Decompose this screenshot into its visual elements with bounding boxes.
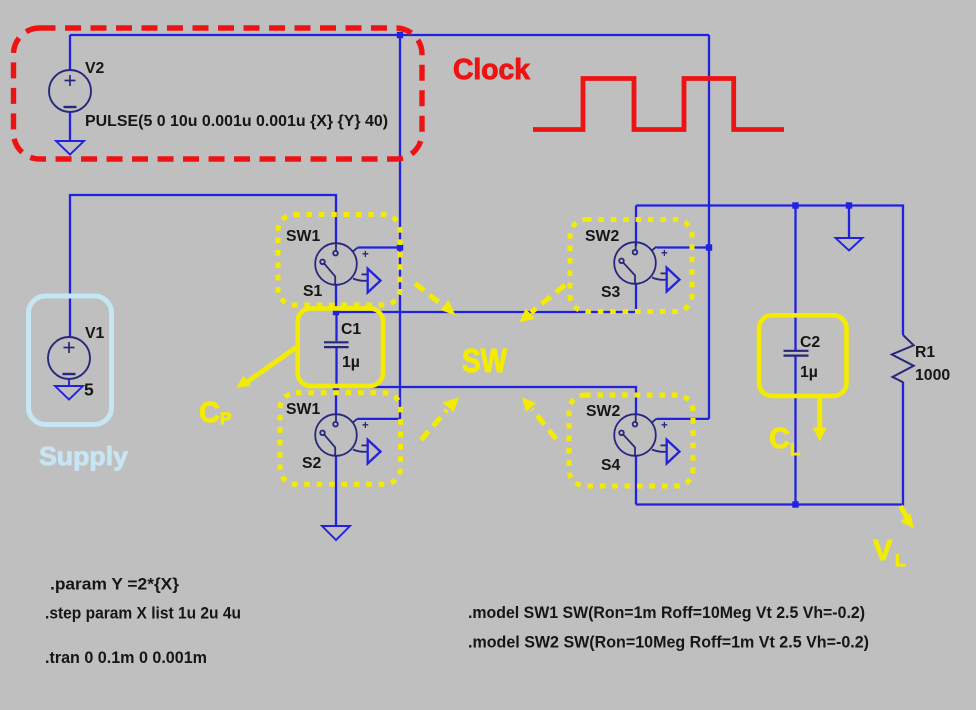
wire S3 control	[657, 246, 710, 248]
svg-text:Clock: Clock	[453, 54, 530, 86]
svg-text:5: 5	[84, 380, 94, 400]
svg-text:SW2: SW2	[586, 403, 620, 420]
wire output rail top	[636, 206, 903, 336]
red clock waveform	[533, 79, 784, 130]
svg-text:.param Y =2*{X}: .param Y =2*{X}	[50, 576, 180, 594]
capacitor C1	[324, 342, 349, 347]
wire ground stub right	[848, 206, 850, 239]
light blue highlight box around V1	[29, 296, 112, 425]
ground output rail	[836, 238, 863, 251]
switch S4	[614, 414, 679, 463]
switch S1	[315, 243, 380, 292]
ground below V1	[55, 379, 83, 400]
junction node C1 bottom	[333, 384, 339, 390]
svg-text:C: C	[199, 397, 220, 429]
yellow dotted box SW1 S1	[278, 215, 400, 306]
resistor R1	[892, 335, 914, 382]
wire C2 bottom lead	[794, 356, 796, 505]
wire S4 control	[657, 418, 710, 420]
svg-text:S3: S3	[601, 284, 621, 301]
svg-text:.step param X list 1u 2u 4u: .step param X list 1u 2u 4u	[45, 605, 241, 623]
capacitor C2	[784, 351, 809, 356]
wire C1 bottom node to S4 top	[336, 387, 636, 414]
svg-text:V: V	[873, 535, 893, 567]
wire supply net V1 to S1	[70, 195, 336, 337]
wire R1 bottom rail	[636, 382, 903, 505]
svg-text:1µ: 1µ	[800, 364, 818, 381]
svg-text:R1: R1	[915, 344, 935, 361]
svg-text:V1: V1	[85, 325, 105, 342]
wire net clock top	[70, 34, 709, 36]
wire S2 bottom to ground	[335, 456, 337, 526]
wire C1 bottom to S2 top	[335, 387, 337, 414]
yellow dashed arrow to S2	[421, 398, 459, 441]
wire C1 leads	[335, 312, 337, 387]
junction node S3 control tap	[706, 244, 712, 250]
yellow arrow Cp from C1	[237, 348, 297, 388]
svg-text:C2: C2	[800, 334, 820, 351]
voltage source V2	[49, 70, 91, 112]
svg-text:L: L	[790, 440, 800, 459]
yellow dotted box SW1 S2	[280, 393, 401, 485]
svg-text:SW1: SW1	[286, 401, 320, 418]
wire S3 top to output rail	[635, 206, 637, 247]
svg-text:+: +	[362, 420, 369, 432]
svg-text:SW2: SW2	[585, 228, 619, 245]
svg-text:L: L	[895, 551, 905, 570]
svg-text:Supply: Supply	[39, 441, 129, 471]
svg-text:+: +	[661, 248, 668, 260]
yellow box around C2	[759, 315, 847, 396]
wire S1 control	[358, 246, 401, 248]
junction node C2 bottom	[792, 501, 798, 507]
yellow dotted box SW2 S4	[569, 395, 693, 486]
wire S4 bottom	[635, 456, 637, 505]
yellow dotted box SW2 S3	[570, 220, 692, 312]
svg-text:S1: S1	[303, 283, 323, 300]
junction node output ground	[846, 202, 852, 208]
wire V2 top lead	[69, 35, 71, 70]
yellow box around C1	[298, 308, 383, 386]
svg-text:+: +	[362, 249, 369, 261]
svg-text:1000: 1000	[915, 367, 950, 384]
switch S3	[614, 242, 679, 291]
junction node clock-left	[397, 32, 403, 38]
svg-text:SW: SW	[462, 342, 508, 379]
switch S2	[315, 414, 380, 463]
svg-text:C1: C1	[341, 321, 361, 338]
wire clock vertical left	[399, 35, 401, 419]
wire V2 bottom to ground	[69, 112, 71, 141]
ground below V2	[56, 141, 84, 155]
svg-text:1µ: 1µ	[342, 354, 360, 371]
svg-text:.model SW1 SW(Ron=1m Roff=10Me: .model SW1 SW(Ron=1m Roff=10Meg Vt 2.5 V…	[468, 604, 865, 622]
svg-text:V2: V2	[85, 60, 105, 77]
wire C2 top lead	[794, 206, 796, 351]
svg-text:S4: S4	[601, 457, 621, 474]
svg-text:SW1: SW1	[286, 228, 320, 245]
red dashed highlight box around V2	[14, 28, 423, 159]
svg-text:S2: S2	[302, 455, 322, 472]
yellow dashed arrow to S3	[520, 285, 566, 323]
wire clock vertical right	[708, 35, 710, 419]
junction node S1 control tap	[397, 244, 403, 250]
junction node C1 top	[333, 309, 339, 315]
voltage source V1	[48, 337, 90, 379]
yellow arrow CL below C2	[813, 397, 827, 442]
svg-text:.tran 0 0.1m 0 0.001m: .tran 0 0.1m 0 0.001m	[45, 649, 207, 667]
svg-text:C: C	[769, 423, 790, 455]
svg-text:+: +	[661, 420, 668, 432]
svg-text:.model SW2 SW(Ron=10Meg Roff=1: .model SW2 SW(Ron=10Meg Roff=1m Vt 2.5 V…	[468, 634, 869, 652]
ground below S2	[322, 526, 350, 540]
svg-text:P: P	[220, 409, 231, 428]
wire S1 bottom to C1 top node	[335, 285, 337, 312]
wire C1 top node to S3 bottom	[336, 284, 636, 312]
wire S2 control	[358, 418, 401, 420]
svg-text:PULSE(5 0 10u 0.001u 0.001u {X: PULSE(5 0 10u 0.001u 0.001u {X} {Y} 40)	[85, 113, 388, 130]
yellow dashed arrow to S4	[522, 398, 556, 440]
yellow dashed arrow to S1	[415, 284, 456, 316]
yellow arrow VL	[901, 506, 915, 529]
junction node C2 top	[792, 202, 798, 208]
